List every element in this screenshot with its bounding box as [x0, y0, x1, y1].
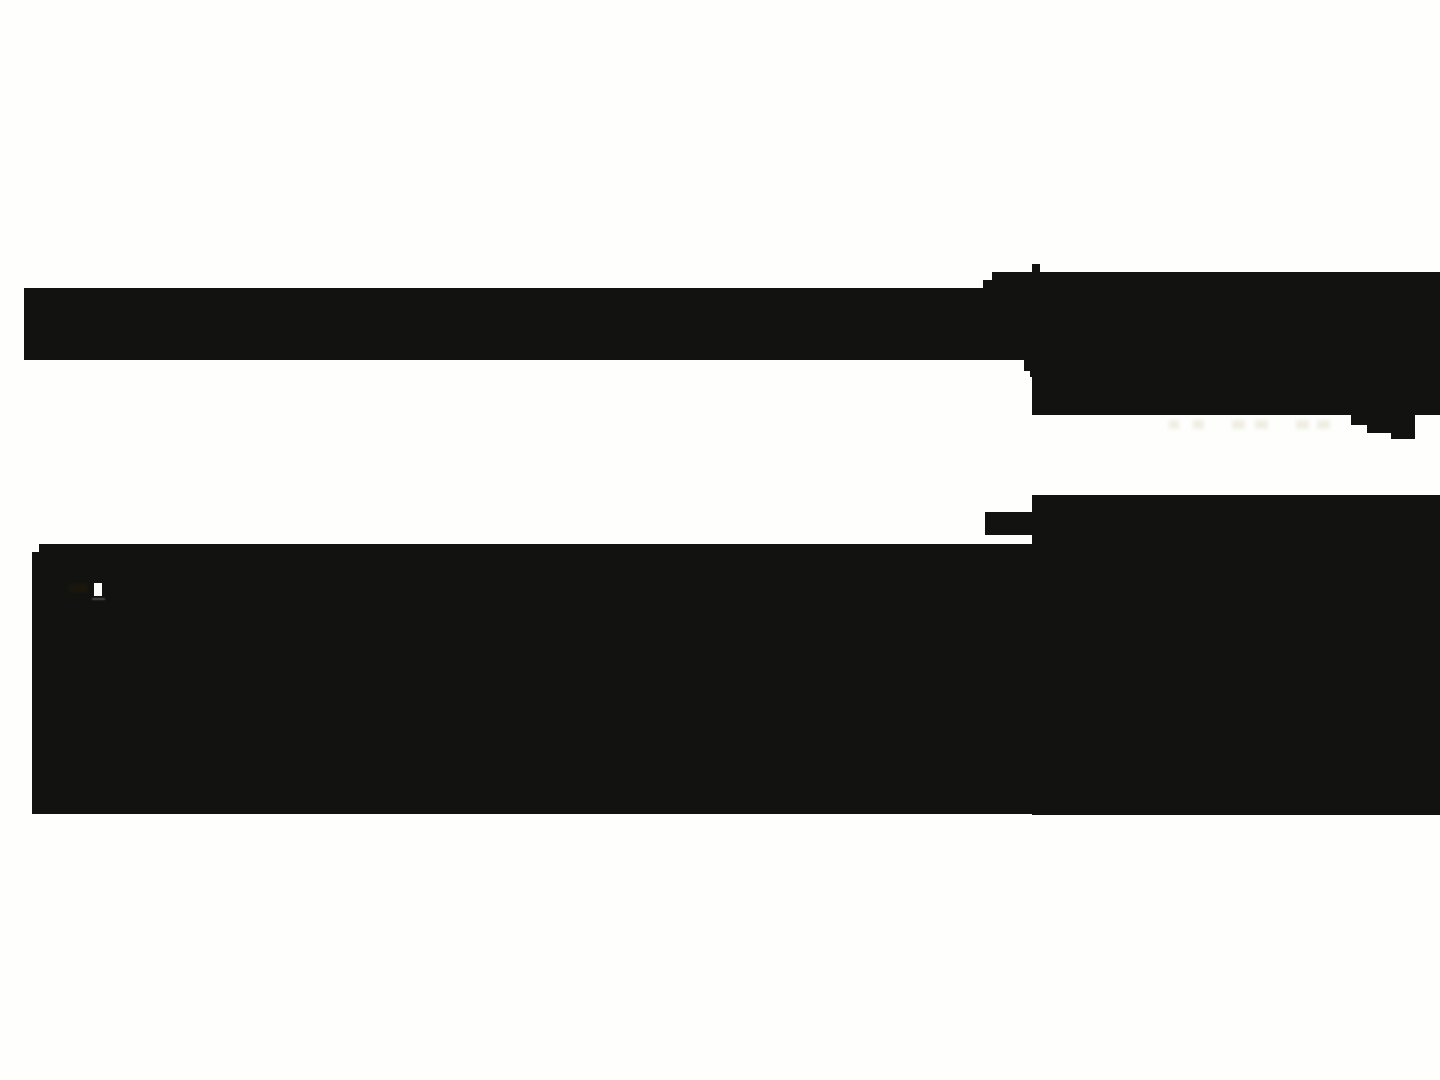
- script blob bump: [1032, 264, 1040, 274]
- script blob left step: [983, 280, 1032, 360]
- blob small step under bar a: [1024, 358, 1031, 371]
- faint underline: [92, 598, 105, 600]
- white window: [94, 583, 102, 596]
- blob small step under bar b: [1030, 358, 1032, 377]
- script blob top ledge: [992, 272, 1440, 288]
- headline bar: [24, 288, 1032, 360]
- second script band: [1032, 495, 1440, 815]
- faint smudge: [69, 584, 88, 592]
- script blob main: [1032, 272, 1440, 415]
- second band left rect: [985, 512, 1032, 535]
- hero mass top strip: [39, 544, 1032, 554]
- descender step 3: [1391, 414, 1415, 439]
- descender step 2: [1367, 414, 1391, 433]
- descender step 1: [1351, 414, 1367, 425]
- faint text remnants under blob: [1169, 420, 1179, 429]
- hero mass: [32, 552, 1440, 814]
